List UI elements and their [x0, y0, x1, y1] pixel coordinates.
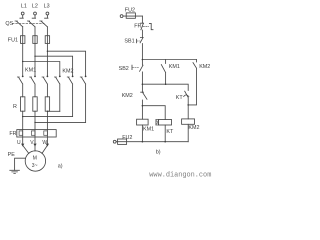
svg-text:FU2: FU2 — [125, 7, 135, 13]
svg-text:PE: PE — [8, 152, 16, 158]
svg-text:U: U — [17, 140, 21, 146]
svg-text:KT: KT — [166, 129, 174, 135]
svg-text:FR: FR — [134, 24, 141, 30]
svg-text:QS: QS — [5, 21, 13, 27]
svg-text:L3: L3 — [44, 3, 50, 9]
svg-text:KM1: KM1 — [25, 68, 36, 74]
svg-text:KM2: KM2 — [62, 68, 73, 74]
svg-text:V: V — [30, 140, 34, 146]
svg-text:KM2: KM2 — [199, 64, 210, 70]
svg-text:FR: FR — [9, 131, 16, 137]
svg-text:W: W — [42, 140, 47, 146]
svg-text:b): b) — [156, 150, 161, 156]
svg-text:KM1: KM1 — [143, 127, 154, 133]
svg-text:SB1: SB1 — [124, 39, 134, 45]
svg-text:FU1: FU1 — [8, 37, 18, 43]
svg-text:R: R — [13, 104, 17, 110]
svg-text:KM1: KM1 — [169, 64, 180, 70]
svg-text:3~: 3~ — [32, 163, 38, 169]
svg-text:a): a) — [58, 164, 63, 170]
svg-text:KM2: KM2 — [188, 125, 199, 131]
svg-text:www.diangon.com: www.diangon.com — [149, 171, 211, 179]
svg-text:KT: KT — [176, 95, 184, 101]
svg-text:L2: L2 — [32, 3, 38, 9]
svg-text:FU2: FU2 — [122, 135, 132, 141]
svg-text:M: M — [33, 155, 37, 161]
svg-text:SB2: SB2 — [119, 66, 129, 72]
svg-text:L1: L1 — [21, 3, 27, 9]
svg-text:KM2: KM2 — [122, 93, 133, 99]
